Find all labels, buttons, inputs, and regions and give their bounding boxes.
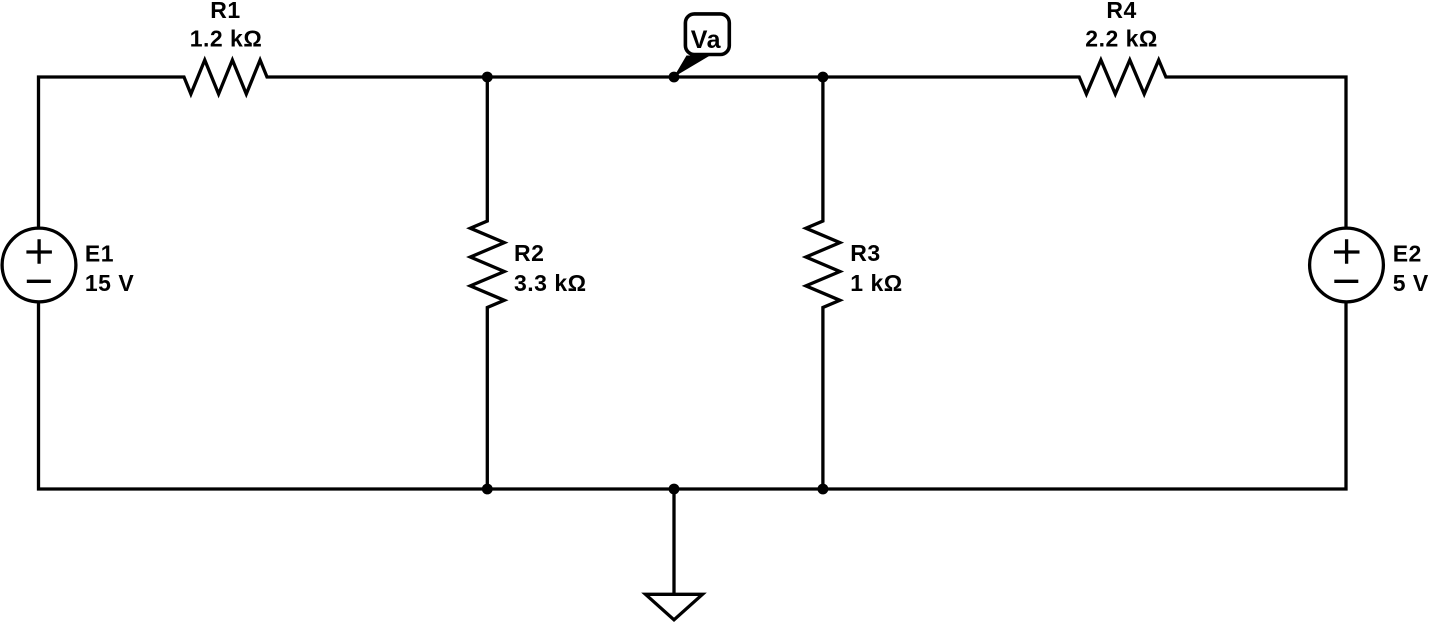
svg-text:R1: R1 [210,0,240,23]
svg-text:2.2 kΩ: 2.2 kΩ [1085,25,1158,51]
svg-text:E2: E2 [1393,241,1422,267]
svg-text:1.2 kΩ: 1.2 kΩ [190,25,263,51]
svg-text:R3: R3 [850,240,880,266]
svg-text:R2: R2 [514,240,544,266]
svg-text:15 V: 15 V [85,270,134,296]
svg-text:3.3 kΩ: 3.3 kΩ [514,270,587,296]
svg-text:E1: E1 [85,241,114,267]
svg-text:R4: R4 [1106,0,1136,23]
svg-text:1 kΩ: 1 kΩ [850,270,902,296]
svg-text:Va: Va [691,26,722,54]
svg-text:5 V: 5 V [1393,270,1429,296]
